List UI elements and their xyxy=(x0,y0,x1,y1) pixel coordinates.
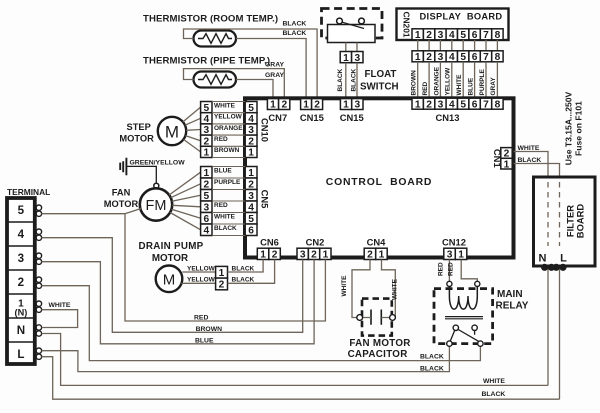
label BLACK (relay feed 1) xyxy=(420,354,444,361)
connector CN10 pins 5-1 xyxy=(245,102,257,159)
svg-text:RED: RED xyxy=(437,262,444,276)
svg-text:PURPLE: PURPLE xyxy=(214,179,241,186)
label CN4 xyxy=(367,237,387,248)
label GRAY (pipe lead 2) xyxy=(265,72,284,79)
svg-text:BLUE: BLUE xyxy=(467,77,474,95)
svg-text:6: 6 xyxy=(472,52,478,63)
svg-text:2: 2 xyxy=(426,30,432,41)
connector CN15 pins 1 2 xyxy=(301,99,323,111)
svg-text:FAN MOTOR: FAN MOTOR xyxy=(349,338,410,349)
svg-text:7: 7 xyxy=(483,99,489,110)
svg-text:RED: RED xyxy=(448,262,455,276)
svg-text:2: 2 xyxy=(314,100,320,111)
svg-text:BLACK: BLACK xyxy=(350,68,357,91)
capacitor C1 plates xyxy=(360,310,393,325)
label BLACK (room lead 1) xyxy=(283,20,307,27)
labels fan motor wire colors xyxy=(214,167,241,232)
svg-text:CN15: CN15 xyxy=(300,112,324,123)
svg-text:2: 2 xyxy=(281,100,287,111)
svg-text:Use T3.15A...250V: Use T3.15A...250V xyxy=(564,91,574,165)
float switch contact left xyxy=(337,18,343,24)
svg-text:CN6: CN6 xyxy=(260,237,279,248)
terminal block TB1 xyxy=(7,198,35,364)
svg-text:1: 1 xyxy=(270,100,276,111)
MAIN RELAY label xyxy=(496,289,529,312)
svg-text:3: 3 xyxy=(438,30,444,41)
label RED vertical (relay 2) xyxy=(448,262,455,276)
label N (filter board) xyxy=(539,253,547,265)
wires display board to harness connector xyxy=(418,40,498,51)
label GREEN/YELLOW xyxy=(130,159,186,166)
label CN1 xyxy=(492,149,503,168)
svg-text:6: 6 xyxy=(472,30,478,41)
svg-text:WHITE: WHITE xyxy=(391,278,398,300)
svg-text:N: N xyxy=(539,253,547,265)
svg-text:SWITCH: SWITCH xyxy=(360,81,399,92)
CONTROL BOARD label xyxy=(326,177,432,188)
svg-text:BLACK: BLACK xyxy=(283,30,307,37)
svg-text:ORANGE: ORANGE xyxy=(214,125,243,132)
relay coil xyxy=(449,287,477,310)
svg-text:BLUE: BLUE xyxy=(195,337,214,344)
relay coil terminal left xyxy=(447,281,452,286)
wire drain pin2 BLACK to CN6 pin 2 xyxy=(228,260,275,284)
svg-text:5: 5 xyxy=(460,99,466,110)
harness connector pins 1-8 xyxy=(412,51,503,63)
DISPLAY BOARD label xyxy=(420,12,503,22)
label WHITE (CN1) xyxy=(518,145,540,152)
thermistor (pipe temp.) label xyxy=(143,55,270,66)
svg-text:M: M xyxy=(163,272,176,289)
svg-text:8: 8 xyxy=(495,30,501,41)
svg-text:1: 1 xyxy=(458,250,464,261)
svg-text:BLACK: BLACK xyxy=(420,366,444,373)
svg-text:CN15: CN15 xyxy=(340,112,364,123)
svg-text:(N): (N) xyxy=(15,308,28,318)
DRAIN PUMP MOTOR label xyxy=(138,241,203,264)
relay coil terminal right xyxy=(475,281,480,286)
svg-text:4: 4 xyxy=(18,228,25,241)
thermistor (room temp.) label xyxy=(143,14,278,25)
drain pump motor M2 xyxy=(156,266,183,293)
wires step motor to connector xyxy=(183,107,201,152)
svg-text:CN5: CN5 xyxy=(260,190,271,209)
label BLACK (relay feed 2) xyxy=(420,366,444,373)
label CN15 (b) xyxy=(340,112,364,123)
svg-text:CN2: CN2 xyxy=(306,237,325,248)
svg-text:GREEN/YELLOW: GREEN/YELLOW xyxy=(130,159,186,166)
label BLACK (drain 2) xyxy=(232,277,255,284)
svg-text:5: 5 xyxy=(18,204,25,217)
wire terminal 2 BLACK to main relay contact xyxy=(42,286,481,361)
labels harness wire colors xyxy=(410,66,497,95)
label WHITE vertical (cap 2) xyxy=(391,278,398,300)
svg-text:BLACK: BLACK xyxy=(518,157,542,164)
wire drain pump to pin 2 YELLOW xyxy=(182,282,216,284)
label CN12 xyxy=(442,237,466,248)
svg-text:BLACK: BLACK xyxy=(214,225,237,232)
svg-text:7: 7 xyxy=(483,52,489,63)
svg-text:6: 6 xyxy=(248,225,254,236)
FAN MOTOR label xyxy=(104,187,139,209)
svg-text:8: 8 xyxy=(495,99,501,110)
fuse note label xyxy=(564,91,584,165)
float switch body xyxy=(328,25,376,43)
svg-text:WHITE: WHITE xyxy=(214,213,236,220)
fan motor ground junction xyxy=(154,183,159,188)
wire terminal N WHITE to filter board N xyxy=(42,334,548,386)
wires fan motor to connector xyxy=(169,172,201,230)
svg-text:FLOAT: FLOAT xyxy=(365,69,397,80)
label L (filter board) xyxy=(560,253,567,265)
svg-text:YELLOW: YELLOW xyxy=(214,114,243,121)
svg-text:CN201: CN201 xyxy=(402,11,412,37)
wire ground to fan motor xyxy=(126,166,156,183)
svg-text:3: 3 xyxy=(300,250,306,261)
float switch lever xyxy=(343,22,364,28)
svg-text:YELLOW: YELLOW xyxy=(445,67,452,96)
terminal block contacts xyxy=(36,205,41,359)
float switch S1 dashed enclosure xyxy=(322,9,383,39)
wires step connector to CN10 xyxy=(212,102,245,158)
svg-text:BLACK: BLACK xyxy=(482,391,506,398)
svg-text:5: 5 xyxy=(460,52,466,63)
label CN5 xyxy=(260,190,271,209)
svg-text:3: 3 xyxy=(354,100,360,111)
svg-text:1: 1 xyxy=(260,250,266,261)
svg-text:8: 8 xyxy=(495,52,501,63)
label BLACK vertical (float 1) xyxy=(337,68,344,91)
wire terminal 5 to fan motor and RED to CN2 pin 1 xyxy=(42,208,326,321)
ground (green/yellow earth) xyxy=(120,158,126,175)
capacitor terminal right xyxy=(390,315,396,321)
wire CN4 pin 1 WHITE to capacitor xyxy=(382,260,396,318)
connector CN4 pins 2 1 xyxy=(364,248,387,260)
wire float switch pin1 BLACK to CN15 pin 1 xyxy=(345,63,347,99)
svg-text:1: 1 xyxy=(203,148,209,159)
svg-text:1: 1 xyxy=(303,100,309,111)
svg-text:BOARD: BOARD xyxy=(575,204,586,239)
label BLACK (drain 1) xyxy=(232,266,255,273)
label CN13 xyxy=(436,112,460,123)
label WHITE vertical (cap 1) xyxy=(341,275,348,297)
label CN10 xyxy=(260,118,271,142)
label BLACK (room lead 2) xyxy=(283,30,307,37)
connector CN2 pins 3 2 1 xyxy=(297,248,331,260)
svg-text:WHITE: WHITE xyxy=(518,145,540,152)
wire terminal 1(N) WHITE jumper to N xyxy=(42,310,78,328)
svg-text:2: 2 xyxy=(272,250,278,261)
svg-text:WHITE: WHITE xyxy=(214,102,236,109)
svg-text:THERMISTOR (ROOM TEMP.): THERMISTOR (ROOM TEMP.) xyxy=(143,14,278,25)
wire drain pump to pin 1 YELLOW xyxy=(182,271,215,273)
wire float switch to connector pins xyxy=(346,43,357,52)
svg-text:CONTROL BOARD: CONTROL BOARD xyxy=(326,177,432,188)
svg-text:ORANGE: ORANGE xyxy=(433,66,440,95)
control board outline xyxy=(245,98,514,257)
STEP MOTOR label xyxy=(119,122,154,144)
svg-text:FM: FM xyxy=(146,198,167,214)
svg-text:3: 3 xyxy=(438,52,444,63)
label BLACK vertical (float 2) xyxy=(350,68,357,91)
svg-text:CN12: CN12 xyxy=(442,237,466,248)
wire pipe thermistor lead GRAY to CN7 pin 2 xyxy=(184,69,285,99)
wire terminal 3 BLUE to CN2 pin 2 xyxy=(42,260,315,344)
svg-text:RED: RED xyxy=(214,202,228,209)
label RED vertical (relay 1) xyxy=(437,262,444,276)
display board CN201 label xyxy=(402,11,412,37)
svg-text:MOTOR: MOTOR xyxy=(119,134,154,144)
wire CN12 pin 1 RED to relay coil xyxy=(461,260,477,282)
connector CN12 pins 3 1 xyxy=(444,248,467,260)
svg-text:CN1: CN1 xyxy=(492,149,503,168)
capacitor terminal left xyxy=(357,315,363,321)
svg-text:GRAY: GRAY xyxy=(265,72,284,79)
capacitor C1 dashed enclosure xyxy=(362,299,392,336)
svg-text:DRAIN PUMP: DRAIN PUMP xyxy=(138,241,203,252)
svg-text:MOTOR: MOTOR xyxy=(152,253,188,264)
connector CN15 pins 1 3 xyxy=(340,99,363,111)
svg-text:BLACK: BLACK xyxy=(283,20,307,27)
svg-text:1: 1 xyxy=(415,99,421,110)
svg-text:YELLOW: YELLOW xyxy=(187,277,216,284)
filter board terminals L xyxy=(553,264,566,270)
label BLACK (line run) xyxy=(482,391,506,398)
svg-text:BROWN: BROWN xyxy=(196,326,223,333)
svg-text:1: 1 xyxy=(343,53,349,64)
svg-text:2: 2 xyxy=(18,276,24,289)
wire terminal L BLACK to filter board L xyxy=(42,357,560,400)
svg-text:WHITE: WHITE xyxy=(341,275,348,297)
label WHITE (jumper) xyxy=(49,302,71,309)
label RED xyxy=(194,315,208,322)
relay core xyxy=(445,317,483,319)
svg-text:RED: RED xyxy=(214,136,228,143)
svg-text:RED: RED xyxy=(422,81,429,95)
label YELLOW (drain 1) xyxy=(187,266,216,273)
svg-text:1: 1 xyxy=(379,250,385,261)
label CN7 xyxy=(268,112,287,123)
svg-text:7: 7 xyxy=(483,30,489,41)
filter board terminals N xyxy=(542,264,555,270)
filter board outline xyxy=(534,177,596,266)
svg-text:4: 4 xyxy=(449,30,455,41)
connector CN1 pins 2 1 xyxy=(501,148,512,171)
svg-text:N: N xyxy=(17,324,25,337)
svg-text:3: 3 xyxy=(438,99,444,110)
svg-text:MAIN: MAIN xyxy=(497,289,523,300)
wire CN1 pin 2 WHITE to filter board xyxy=(514,152,548,386)
svg-text:4: 4 xyxy=(449,99,455,110)
svg-text:BLACK: BLACK xyxy=(420,354,444,361)
svg-text:Fuse on F101: Fuse on F101 xyxy=(574,101,584,156)
float switch connector pins 1 3 xyxy=(340,52,363,64)
svg-text:1: 1 xyxy=(415,30,421,41)
wires harness to CN13 (BROWN RED ORANGE YELLOW WHITE BLUE PURPLE GRAY) xyxy=(418,62,498,98)
svg-text:DISPLAY BOARD: DISPLAY BOARD xyxy=(420,12,503,22)
svg-text:WHITE: WHITE xyxy=(49,302,71,309)
svg-text:L: L xyxy=(17,348,24,361)
wire terminal 4 BROWN to CN2 pin 3 xyxy=(42,238,303,333)
svg-text:CN13: CN13 xyxy=(436,112,460,123)
svg-text:BROWN: BROWN xyxy=(410,70,417,96)
labels step motor wire colors xyxy=(214,102,243,154)
svg-text:PURPLE: PURPLE xyxy=(479,68,486,95)
connector CN13 pins 1-8 xyxy=(412,98,503,110)
svg-text:6: 6 xyxy=(472,99,478,110)
svg-text:1: 1 xyxy=(248,148,254,159)
thermistor RT1 (room temp.) xyxy=(194,31,237,47)
svg-text:3: 3 xyxy=(354,53,360,64)
svg-text:BLACK: BLACK xyxy=(232,266,255,273)
svg-text:YELLOW: YELLOW xyxy=(187,266,216,273)
label CN6 xyxy=(260,237,279,248)
label BLACK (CN1) xyxy=(518,157,542,164)
fan motor connector pins 1 2 5 3 6 4 xyxy=(201,167,212,237)
label CN2 xyxy=(306,237,325,248)
wire CN12 pin 3 RED to relay coil xyxy=(448,260,450,282)
label WHITE (neutral run) xyxy=(483,378,505,385)
display board connector CN201 pins 1-8 xyxy=(412,29,503,41)
svg-text:1: 1 xyxy=(219,268,225,279)
wire room thermistor lead BLACK to CN15 pin 2 xyxy=(184,29,318,99)
svg-text:2: 2 xyxy=(426,99,432,110)
svg-text:5: 5 xyxy=(460,30,466,41)
step motor M1 xyxy=(158,117,186,145)
label BROWN xyxy=(196,326,223,333)
svg-text:THERMISTOR (PIPE TEMP.): THERMISTOR (PIPE TEMP.) xyxy=(143,55,270,66)
svg-text:2: 2 xyxy=(219,280,225,291)
svg-text:1: 1 xyxy=(504,159,510,170)
svg-text:WHITE: WHITE xyxy=(483,378,505,385)
step motor connector pins 5-1 xyxy=(201,102,212,159)
label CN15 (a) xyxy=(300,112,324,123)
wire CN4 pin 2 WHITE to capacitor xyxy=(352,260,370,318)
TERMINAL label xyxy=(7,187,50,197)
connector CN6 pins 1 2 xyxy=(257,248,280,260)
svg-text:M: M xyxy=(165,122,179,141)
svg-text:4: 4 xyxy=(203,225,209,236)
svg-text:TERMINAL: TERMINAL xyxy=(7,187,50,197)
float switch contact right xyxy=(359,18,365,24)
svg-text:2: 2 xyxy=(367,250,373,261)
svg-text:2: 2 xyxy=(311,250,317,261)
svg-text:3: 3 xyxy=(447,250,453,261)
fan motor FM1 xyxy=(140,188,172,220)
svg-text:MOTOR: MOTOR xyxy=(104,199,139,209)
wire room thermistor lead BLACK to CN15 pin 1 xyxy=(236,39,306,99)
svg-text:3: 3 xyxy=(18,252,25,265)
wire CN1 pin 1 BLACK to filter board xyxy=(514,164,560,400)
svg-text:4: 4 xyxy=(449,52,455,63)
FAN MOTOR CAPACITOR label xyxy=(348,338,411,360)
drain pump connector pins 1 2 xyxy=(216,266,228,290)
wire float switch pin3 BLACK to CN15 pin 3 xyxy=(356,63,358,99)
svg-text:BLACK: BLACK xyxy=(337,68,344,91)
svg-text:1: 1 xyxy=(415,52,421,63)
svg-text:FAN: FAN xyxy=(112,187,131,197)
svg-text:RELAY: RELAY xyxy=(496,301,529,312)
display board outline xyxy=(397,9,509,41)
svg-text:BROWN: BROWN xyxy=(214,147,240,154)
svg-text:BLACK: BLACK xyxy=(232,277,255,284)
svg-text:CAPACITOR: CAPACITOR xyxy=(348,349,408,360)
svg-text:2: 2 xyxy=(426,52,432,63)
label GRAY (pipe lead 1) xyxy=(265,61,284,68)
wire pipe thermistor lead GRAY to CN7 pin 1 xyxy=(236,80,273,99)
connector CN5 pins 1-6 xyxy=(245,167,257,237)
thermistor RT2 (pipe temp.) xyxy=(194,72,237,88)
connector CN7 pins 1 2 xyxy=(267,99,289,111)
label YELLOW (drain 2) xyxy=(187,277,216,284)
relay switch xyxy=(447,325,483,346)
svg-text:WHITE: WHITE xyxy=(456,74,463,96)
svg-text:CN4: CN4 xyxy=(367,237,387,248)
svg-text:GRAY: GRAY xyxy=(265,61,284,68)
svg-text:GRAY: GRAY xyxy=(490,77,497,96)
svg-text:BLUE: BLUE xyxy=(214,167,232,174)
wires fan connector to CN5 xyxy=(212,167,245,236)
FILTER BOARD label xyxy=(565,204,586,239)
svg-text:L: L xyxy=(560,253,567,265)
label BLUE xyxy=(195,337,214,344)
FLOAT SWITCH label xyxy=(360,69,399,93)
svg-text:RED: RED xyxy=(194,315,208,322)
svg-text:CN10: CN10 xyxy=(260,118,271,142)
main relay RY1 dashed enclosure xyxy=(434,289,493,344)
svg-text:STEP: STEP xyxy=(127,122,151,132)
wire drain pin1 BLACK to CN6 pin 1 xyxy=(228,260,264,273)
svg-text:1: 1 xyxy=(323,250,329,261)
wire terminal L BLACK to main relay contact xyxy=(42,346,450,371)
svg-text:1: 1 xyxy=(343,100,349,111)
